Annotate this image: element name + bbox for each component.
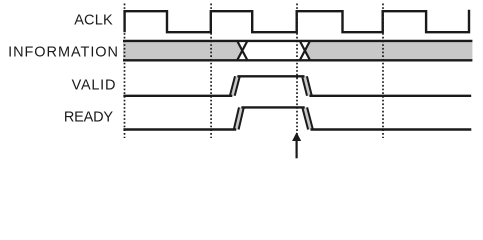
INFORMATION transition X1 rising diagonal (237, 41, 247, 60)
READY high line (241, 106, 304, 108)
READY falling-edge shaded parallelogram (302, 107, 313, 129)
READY falling edge right stroke (307, 107, 313, 129)
svg-text:ACLK: ACLK (74, 13, 113, 29)
INFORMATION transition X2 falling diagonal (300, 41, 310, 60)
VALID falling edge right stroke (307, 76, 312, 96)
READY low line left (123, 128, 236, 130)
VALID high line (237, 75, 304, 77)
svg-text:VALID: VALID (72, 78, 117, 94)
READY rising-edge shaded parallelogram (234, 107, 244, 129)
VALID rising edge right stroke (235, 76, 240, 96)
INFORMATION bus gray fill left (valid data) (123, 41, 242, 60)
VALID falling edge left stroke (302, 76, 307, 96)
INFORMATION transition X1 falling diagonal (237, 41, 247, 60)
VALID low line right (309, 95, 471, 97)
INFORMATION bus gray fill right (valid data) (305, 41, 473, 60)
READY low line right (311, 128, 472, 130)
ACLK clock waveform (125, 10, 469, 32)
sample-point arrow shaft (296, 140, 298, 158)
dotted clock-edge grid line 2 (210, 4, 212, 139)
dotted clock-edge grid line 4 (382, 4, 384, 139)
READY rising edge left stroke (234, 107, 239, 129)
dotted clock-edge grid line 3 (296, 4, 298, 139)
dotted clock-edge grid line 1 (124, 4, 126, 139)
svg-text:INFORMATION: INFORMATION (8, 45, 119, 61)
sample-point arrow head (292, 132, 301, 141)
INFORMATION bus bottom edge (123, 59, 472, 61)
READY rising edge right stroke (239, 107, 244, 129)
VALID falling-edge shaded parallelogram (302, 76, 312, 96)
VALID rising edge left stroke (230, 76, 235, 96)
VALID low line left (123, 95, 232, 97)
INFORMATION bus top edge (123, 40, 472, 42)
INFORMATION transition X2 rising diagonal (300, 41, 310, 60)
READY falling edge left stroke (302, 107, 308, 129)
svg-text:READY: READY (64, 110, 113, 126)
VALID rising-edge shaded parallelogram (230, 76, 240, 96)
